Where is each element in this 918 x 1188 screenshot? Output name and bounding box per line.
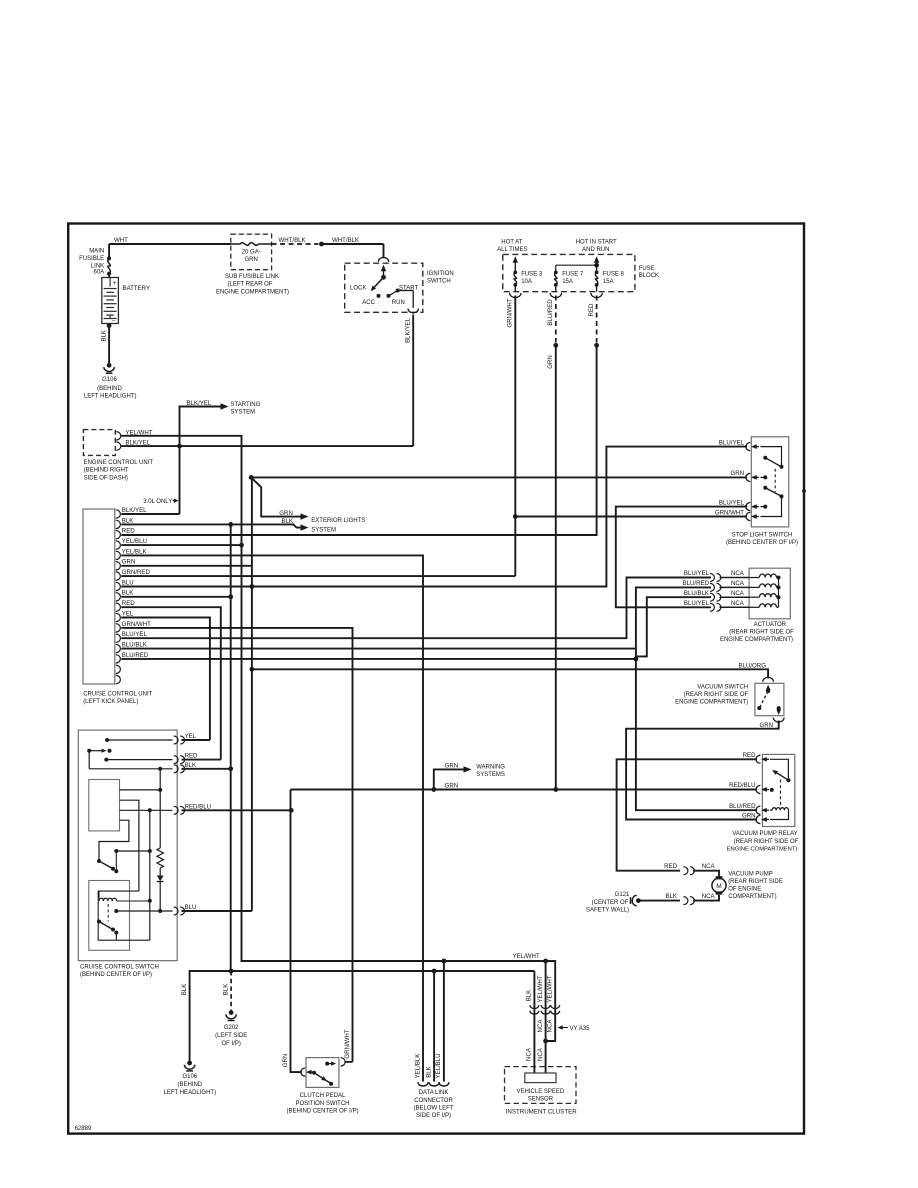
ground G106 lower <box>187 1061 192 1066</box>
wire GRN/WHT stop light switch pin4 to fuse3 net <box>515 516 747 518</box>
wire BLU cruise unit pin8 to stop light switch pin1 <box>121 447 747 587</box>
svg-text:VACUUM PUMP: VACUUM PUMP <box>728 872 773 878</box>
svg-text:GRN: GRN <box>245 257 258 263</box>
svg-text:NCA: NCA <box>731 570 745 577</box>
wire BLK dashed to G202 <box>230 971 232 1011</box>
cruise switch internal rail <box>149 810 151 940</box>
svg-text:GRN: GRN <box>547 355 554 369</box>
svg-text:ENGINE COMPARTMENT): ENGINE COMPARTMENT) <box>216 289 289 295</box>
svg-text:(REAR RIGHT SIDE OF: (REAR RIGHT SIDE OF <box>729 629 794 635</box>
svg-text:VACUUM PUMP RELAY: VACUUM PUMP RELAY <box>732 831 797 837</box>
clutch switch left connector GRN <box>301 1068 305 1076</box>
svg-text:RED: RED <box>185 753 198 760</box>
fuse 7 15A <box>555 265 557 272</box>
svg-text:OF I/P): OF I/P) <box>222 1041 241 1047</box>
svg-text:IGNITION: IGNITION <box>427 271 454 277</box>
svg-text:NCA: NCA <box>526 1047 533 1061</box>
VSS inline connectors <box>530 1005 539 1008</box>
cruise unit pin 8 BLU <box>116 582 121 590</box>
wire BLU/YEL stop pin3 to actuator pin4 <box>616 507 747 608</box>
svg-text:GRN: GRN <box>730 470 744 477</box>
svg-text:BLU/BLK: BLU/BLK <box>684 590 709 597</box>
wire BLU cruise switch <box>182 910 252 912</box>
cruise switch resistor branch <box>120 789 161 791</box>
cruise switch internal BLK line <box>88 751 90 769</box>
wire GRN vacuum switch to relay <box>626 721 779 820</box>
wire BLK cruise unit pin2 to exterior lights <box>121 524 300 527</box>
relay pin RED/BLU <box>756 785 760 793</box>
svg-text:COMPARTMENT): COMPARTMENT) <box>728 894 776 900</box>
cruise switch control module box <box>89 780 120 831</box>
svg-text:YEL/WHT: YEL/WHT <box>513 953 540 960</box>
svg-text:NCA: NCA <box>731 580 745 587</box>
ground G202 <box>229 1010 234 1015</box>
svg-text:NCA: NCA <box>702 863 716 870</box>
svg-text:YEL/WHT: YEL/WHT <box>547 975 554 1002</box>
svg-text:WARNING: WARNING <box>476 764 505 770</box>
cruise unit pin 1 BLK/YEL <box>116 510 121 518</box>
svg-text:ALL TIMES: ALL TIMES <box>497 247 527 253</box>
svg-text:RED/BLU: RED/BLU <box>729 782 755 789</box>
svg-text:LEFT HEADLIGHT): LEFT HEADLIGHT) <box>84 394 137 400</box>
wire BLK/YEL ignition down to ECU line <box>412 315 414 447</box>
svg-text:NCA: NCA <box>702 893 716 900</box>
wire GRN/WHT cruise unit pin12 to clutch pedal switch <box>121 628 352 1062</box>
svg-text:BLK: BLK <box>122 517 134 524</box>
svg-text:(REAR RIGHT SIDE: (REAR RIGHT SIDE <box>728 879 783 885</box>
clutch switch internals <box>312 1071 316 1075</box>
cruise unit pin 16 (empty) <box>116 665 121 673</box>
svg-text:62889: 62889 <box>75 1126 92 1132</box>
svg-text:RED: RED <box>588 303 595 316</box>
svg-text:(CENTER OF: (CENTER OF <box>592 900 629 906</box>
wire BLK net vertical <box>230 524 232 971</box>
actuator pin 3 BLU/BLK <box>710 593 714 601</box>
svg-text:RED: RED <box>122 528 135 535</box>
svg-text:(BEHIND CENTER OF I/P): (BEHIND CENTER OF I/P) <box>286 1108 358 1114</box>
svg-text:G121: G121 <box>615 892 630 898</box>
ground G121 <box>636 898 641 903</box>
svg-text:BLK/YEL: BLK/YEL <box>405 318 412 343</box>
cruise switch BLU line <box>114 909 118 913</box>
svg-text:GRN: GRN <box>445 763 459 770</box>
svg-text:15A: 15A <box>603 279 614 285</box>
svg-text:BLOCK: BLOCK <box>639 273 659 279</box>
resistor R1 <box>157 848 163 868</box>
cruise switch pin BLU <box>174 907 178 915</box>
svg-text:GRN: GRN <box>282 1054 289 1068</box>
svg-text:BLU: BLU <box>122 579 134 586</box>
instrument cluster box <box>505 1067 577 1104</box>
svg-text:WHT: WHT <box>114 237 128 244</box>
cruise switch pin YEL <box>174 736 178 744</box>
cruise unit pin 14 BLU/BLK <box>116 644 121 652</box>
svg-text:3.0L ONLY: 3.0L ONLY <box>143 499 172 505</box>
junction dot GRN stop light <box>249 475 254 480</box>
callout VY A35 <box>560 1027 568 1029</box>
stop light switch pin4 connector GRN/WHT <box>746 512 750 520</box>
cruise unit pin 12 GRN/WHT <box>116 624 121 632</box>
svg-text:RED/BLU: RED/BLU <box>185 803 211 810</box>
svg-text:DATA LINK: DATA LINK <box>419 1090 449 1096</box>
splice dot GRN <box>553 343 558 348</box>
svg-text:GRN: GRN <box>279 510 293 517</box>
svg-text:(BEHIND CENTER OF I/P): (BEHIND CENTER OF I/P) <box>80 972 152 978</box>
fuse 8 15A <box>594 256 599 263</box>
svg-text:(LEFT KICK PANEL): (LEFT KICK PANEL) <box>83 699 138 705</box>
wire ignition START to output <box>398 290 414 292</box>
cruise unit pin 15 BLU/RED <box>116 655 121 663</box>
vehicle speed sensor box <box>525 1073 556 1083</box>
wire YEL/WHT VSS <box>545 961 547 1073</box>
svg-text:FUSE: FUSE <box>639 266 655 272</box>
engine control unit box <box>83 430 115 456</box>
junction dot GRN warning <box>431 787 436 792</box>
wire BLK/YEL cruise unit pin1 <box>121 513 179 515</box>
cruise unit pin 9 BLK <box>116 593 121 601</box>
battery B1 <box>102 278 119 324</box>
coil L1 <box>98 891 100 898</box>
ignition switch connector top <box>378 258 388 262</box>
wire RED/BLU cruise switch <box>182 809 292 811</box>
svg-text:YEL/BLK: YEL/BLK <box>122 548 147 555</box>
svg-text:M: M <box>716 883 722 890</box>
junction dot RED/BLU cruise switch <box>289 808 294 813</box>
svg-text:BLK: BLK <box>181 984 188 996</box>
svg-text:INSTRUMENT CLUSTER: INSTRUMENT CLUSTER <box>506 1108 578 1115</box>
junction dot BLK/YEL <box>177 444 182 449</box>
svg-text:LEFT HEADLIGHT): LEFT HEADLIGHT) <box>164 1090 217 1096</box>
svg-text:BLU/YEL: BLU/YEL <box>684 570 710 577</box>
wire RED cruise unit pin10 to cruise switch RED <box>121 607 221 759</box>
wire BLU/RED fuse7 dashed to splice <box>555 296 557 343</box>
main fusible link 60A <box>108 244 110 258</box>
wire WHT battery to sub fusible link <box>109 243 231 245</box>
svg-text:FUSE 8: FUSE 8 <box>603 272 625 278</box>
wire GRN down to clutch pedal switch <box>291 790 302 1073</box>
svg-text:ACTUATOR: ACTUATOR <box>754 622 787 628</box>
svg-text:BLU/YEL: BLU/YEL <box>684 600 710 607</box>
svg-text:BLK: BLK <box>665 893 677 900</box>
svg-text:WHT/BLK: WHT/BLK <box>279 237 306 244</box>
junction dot BLU/RED <box>634 657 639 662</box>
svg-text:GRN/WHT: GRN/WHT <box>715 509 744 516</box>
frame tick mark <box>802 489 806 493</box>
svg-text:−: − <box>112 318 116 325</box>
svg-text:(BEHIND CENTER OF I/P): (BEHIND CENTER OF I/P) <box>726 540 798 546</box>
wire BLK battery to ground <box>107 323 112 328</box>
svg-text:BLU/RED: BLU/RED <box>122 652 149 659</box>
junction dot YEL/BLU <box>239 543 244 548</box>
junction dot BLK pin9 <box>228 594 233 599</box>
wire BLK/YEL ECU to ignition <box>121 445 413 447</box>
wire GRN to exterior lights <box>251 477 300 516</box>
splice dot WHT/BLK <box>319 242 324 247</box>
actuator pin 2 BLU/RED <box>710 583 714 591</box>
svg-text:NCA: NCA <box>547 1019 554 1033</box>
wire YEL/BLU data link connector <box>443 961 445 1082</box>
cruise unit pin 17 (empty) <box>116 675 121 683</box>
svg-text:SUB FUSIBLE LINK: SUB FUSIBLE LINK <box>225 274 279 280</box>
vacuum pump motor <box>684 867 688 875</box>
ignition switch contacts <box>381 265 386 272</box>
svg-text:BLK: BLK <box>101 330 108 342</box>
sub fusible link box <box>231 234 272 270</box>
sub fusible link element <box>231 243 241 245</box>
cruise unit pin 2 BLK <box>116 520 121 528</box>
cruise unit pin 11 YEL <box>116 613 121 621</box>
wire actuator pin3 branch <box>636 597 711 656</box>
wire GRN to warning systems <box>434 769 464 789</box>
relay internals <box>770 759 788 778</box>
vacuum switch connector bottom <box>773 718 784 722</box>
svg-text:GRN/WHT: GRN/WHT <box>507 298 514 327</box>
svg-text:(LEFT REAR OF: (LEFT REAR OF <box>228 282 273 288</box>
svg-text:ENGINE COMPARTMENT): ENGINE COMPARTMENT) <box>720 637 793 643</box>
svg-text:STOP LIGHT SWITCH: STOP LIGHT SWITCH <box>732 532 793 538</box>
svg-text:(BEHIND RIGHT: (BEHIND RIGHT <box>84 468 129 474</box>
svg-text:BLU/RED: BLU/RED <box>729 803 756 810</box>
junction dot YEL/BLU DLC <box>442 959 447 964</box>
wire BLK ground net <box>190 971 535 1062</box>
svg-text:GRN: GRN <box>759 722 773 729</box>
svg-text:FUSIBLE: FUSIBLE <box>79 256 104 262</box>
junction dot VSS join <box>543 1039 548 1044</box>
wire GRN net to relay RED/BLU <box>291 789 758 791</box>
cruise unit pin 13 BLU/YEL <box>116 634 121 642</box>
wire GRN/WHT fuse3 down <box>514 296 516 577</box>
wire BLU/RED cruise unit pin15 <box>121 658 636 660</box>
stop light switch internals <box>761 447 782 467</box>
svg-text:ENGINE COMPARTMENT): ENGINE COMPARTMENT) <box>727 846 798 852</box>
wire WHT/BLK dashed to splice <box>272 243 319 245</box>
actuator pin 1 BLU/YEL <box>710 574 714 582</box>
svg-text:G202: G202 <box>224 1025 239 1031</box>
svg-text:(LEFT SIDE: (LEFT SIDE <box>215 1033 247 1039</box>
cruise control unit box <box>83 509 115 684</box>
svg-text:LOCK: LOCK <box>350 286 366 292</box>
svg-text:RED: RED <box>743 752 756 759</box>
wire BLK VSS <box>533 971 535 1073</box>
clutch pedal position switch box <box>306 1058 339 1088</box>
svg-text:(REAR RIGHT SIDE OF: (REAR RIGHT SIDE OF <box>734 839 799 845</box>
svg-text:SAFETY WALL): SAFETY WALL) <box>586 907 629 913</box>
junction dot BLU pin8 <box>250 584 255 589</box>
svg-text:(BELOW LEFT: (BELOW LEFT <box>413 1105 453 1111</box>
svg-text:BLK: BLK <box>122 590 134 597</box>
svg-text:CRUISE CONTROL UNIT: CRUISE CONTROL UNIT <box>83 691 152 697</box>
svg-text:FUSE 3: FUSE 3 <box>521 272 543 278</box>
actuator pin 4 BLU/YEL <box>710 603 714 611</box>
wire YEL cruise unit pin11 to cruise switch YEL <box>121 618 210 741</box>
svg-text:YEL/BLU: YEL/BLU <box>435 1053 442 1078</box>
svg-text:+: + <box>113 280 117 287</box>
svg-text:BLK: BLK <box>526 990 533 1002</box>
actuator box <box>749 568 790 619</box>
stop light switch pin1 connector BLU/YEL <box>746 443 750 451</box>
svg-text:STARTING: STARTING <box>231 402 261 408</box>
svg-text:BATTERY: BATTERY <box>123 285 151 292</box>
wire GRN/WHT clutch switch up <box>345 1061 353 1063</box>
svg-text:BLK/YEL: BLK/YEL <box>122 507 147 514</box>
cruise control switch box <box>78 730 177 961</box>
svg-text:SYSTEM: SYSTEM <box>311 528 336 534</box>
svg-text:OF ENGINE: OF ENGINE <box>728 887 761 893</box>
svg-text:SYSTEMS: SYSTEMS <box>476 772 505 778</box>
cruise unit pin 5 YEL/BLK <box>116 551 121 559</box>
cruise switch pin RED/BLU <box>174 806 178 814</box>
svg-text:60A: 60A <box>94 269 105 275</box>
stop light switch pin2 connector GRN <box>746 473 750 481</box>
wire BLU/BLK cruise unit pin14 to actuator pin2 <box>121 648 636 650</box>
vacuum switch connector top <box>763 677 774 681</box>
svg-text:BLU/RED: BLU/RED <box>683 580 710 587</box>
svg-text:RED: RED <box>664 863 677 870</box>
wire link fuse7 to fuse8 top <box>556 264 597 266</box>
svg-text:BLU/ORG: BLU/ORG <box>739 662 767 669</box>
splice dot RED <box>594 343 599 348</box>
cruise switch resume switch <box>97 920 101 924</box>
cruise unit pin 10 RED <box>116 603 121 611</box>
cruise unit pin 6 GRN <box>116 562 121 570</box>
svg-text:GRN: GRN <box>122 559 136 566</box>
vacuum switch internals <box>766 685 771 691</box>
wire GRN stop light net vertical <box>251 477 253 911</box>
svg-text:ACC: ACC <box>362 300 375 306</box>
DLC connectors <box>418 1082 428 1086</box>
svg-text:BLU/BLK: BLU/BLK <box>122 642 147 649</box>
svg-text:BLU: BLU <box>185 904 197 911</box>
actuator coil common <box>778 578 780 608</box>
cruise switch resume switch box <box>89 881 130 951</box>
svg-text:SENSOR: SENSOR <box>528 1097 554 1103</box>
svg-text:BLK/YEL: BLK/YEL <box>187 400 212 407</box>
wire RED relay to vacuum pump <box>617 759 757 870</box>
junction dot BLU/ORG <box>250 667 255 672</box>
svg-text:POSITION SWITCH: POSITION SWITCH <box>296 1101 350 1107</box>
ECU pin BLK/YEL <box>116 442 121 450</box>
junction dot GRN/WHT fuse3 <box>513 514 518 519</box>
svg-text:YEL/BLU: YEL/BLU <box>122 538 147 545</box>
wire BLK data link connector <box>433 971 435 1082</box>
cruise switch module output RED/BLU <box>120 809 173 811</box>
wire BLK cruise unit pin9 <box>121 596 230 598</box>
mechanical link dashed <box>107 904 109 922</box>
cruise switch horn contact <box>87 749 91 753</box>
svg-text:BLU/YEL: BLU/YEL <box>122 631 148 638</box>
wire BLK cruise switch <box>182 768 231 770</box>
junction dot YEL/WHT <box>543 959 548 964</box>
svg-text:BLK: BLK <box>223 984 230 996</box>
cruise switch set/coast switch <box>97 859 101 863</box>
border frame <box>68 224 804 1134</box>
svg-text:NCA: NCA <box>731 600 745 607</box>
svg-text:NCA: NCA <box>731 590 745 597</box>
svg-text:FUSE 7: FUSE 7 <box>562 272 584 278</box>
junction dot BLK DLC <box>432 969 437 974</box>
cruise switch module output 4 to set switch <box>99 820 129 860</box>
wire RED cruise switch <box>182 759 221 761</box>
wire BLU/YEL cruise unit pin13 to actuator pin1 <box>121 578 711 639</box>
svg-text:SYSTEM: SYSTEM <box>231 410 256 416</box>
svg-text:CLUTCH PEDAL: CLUTCH PEDAL <box>300 1093 346 1099</box>
wire WHT/BLK splice to ignition switch <box>322 243 384 245</box>
svg-text:G106: G106 <box>182 1074 197 1080</box>
relay pin GRN <box>756 815 760 823</box>
svg-text:RED: RED <box>122 600 135 607</box>
svg-text:GRN/WHT: GRN/WHT <box>344 1029 351 1058</box>
svg-text:YEL/BLK: YEL/BLK <box>414 1054 421 1079</box>
wire YEL/WHT ECU to bottom YEL/WHT net <box>121 436 555 1041</box>
svg-text:VACUUM SWITCH: VACUUM SWITCH <box>697 685 748 691</box>
wire RED fuse8 dashed to splice <box>596 296 598 343</box>
wire GRN cruise unit pin6 <box>121 565 252 567</box>
wire actuator pin2 riser to vacuum pump relay BLU/RED <box>636 587 757 810</box>
svg-text:MAIN: MAIN <box>89 248 104 254</box>
cruise switch inner frame <box>98 891 150 940</box>
svg-text:CONNECTOR: CONNECTOR <box>414 1098 453 1104</box>
svg-text:SIDE OF DASH): SIDE OF DASH) <box>84 475 128 481</box>
svg-text:HOT AT: HOT AT <box>501 240 522 246</box>
cruise unit pin 7 GRN/RED <box>116 572 121 580</box>
svg-text:10A: 10A <box>521 279 532 285</box>
junction dot GRN fuse7 <box>553 787 558 792</box>
wire BLU/ORG junction to vacuum switch <box>252 669 768 678</box>
svg-text:VEHICLE SPEED: VEHICLE SPEED <box>517 1089 565 1095</box>
wire YEL/BLK cruise unit pin5 to data link connector <box>121 555 423 1081</box>
svg-text:15A: 15A <box>562 279 573 285</box>
svg-text:20 GA-: 20 GA- <box>242 249 261 255</box>
wire RED fuse8 to cruise unit RED pin <box>121 345 596 535</box>
svg-text:BLK: BLK <box>425 1066 432 1078</box>
junction dot BLK ground net <box>229 969 234 974</box>
svg-text:YEL: YEL <box>122 610 134 617</box>
cruise switch pin BLK <box>174 765 178 773</box>
ECU pin YEL/WHT <box>116 432 121 440</box>
svg-text:(REAR RIGHT SIDE OF: (REAR RIGHT SIDE OF <box>684 692 749 698</box>
cruise unit pin 3 RED <box>116 531 121 539</box>
svg-text:BLK: BLK <box>282 518 294 525</box>
wire YEL/BLU cruise unit pin4 <box>121 544 241 546</box>
svg-text:BLK: BLK <box>185 762 197 769</box>
svg-text:WHT/BLK: WHT/BLK <box>332 237 359 244</box>
svg-text:ENGINE CONTROL UNIT: ENGINE CONTROL UNIT <box>84 460 154 466</box>
clutch switch right connector GRN/WHT <box>341 1058 346 1066</box>
svg-text:G106: G106 <box>102 377 117 383</box>
svg-text:AND RUN: AND RUN <box>582 247 609 253</box>
ignition switch box <box>345 263 423 312</box>
vacuum switch box <box>755 683 784 715</box>
wire BLK/YEL to starting system arrow <box>180 407 221 515</box>
cruise unit pin 4 YEL/BLU <box>116 541 121 549</box>
svg-text:EXTERIOR LIGHTS: EXTERIOR LIGHTS <box>311 518 365 524</box>
cruise switch internal YEL line <box>105 738 109 742</box>
junction dot BLK pin2 <box>228 522 233 527</box>
wire GRN stop light switch pin2 <box>251 476 747 478</box>
wire GRN/RED cruise unit pin7 to fuse3 wire <box>121 575 515 577</box>
ground G106 battery <box>107 363 112 368</box>
svg-text:GRN: GRN <box>742 812 756 819</box>
wire GRN fuse7 splice down to GRN junction <box>555 345 557 789</box>
svg-text:VY A35: VY A35 <box>570 1026 591 1032</box>
svg-text:ENGINE COMPARTMENT): ENGINE COMPARTMENT) <box>675 700 748 706</box>
svg-text:CRUISE CONTROL SWITCH: CRUISE CONTROL SWITCH <box>80 965 159 971</box>
svg-text:RUN: RUN <box>392 300 405 306</box>
wire YEL cruise switch <box>182 739 210 741</box>
svg-text:BLU/YEL: BLU/YEL <box>719 439 745 446</box>
svg-text:SWITCH: SWITCH <box>427 278 451 284</box>
cruise switch internal RED line <box>104 758 108 762</box>
